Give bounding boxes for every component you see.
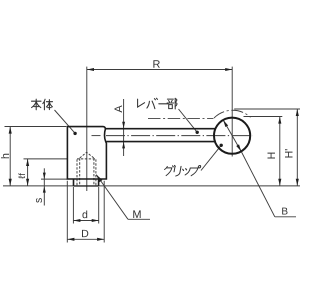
svg-text:B: B	[281, 206, 288, 217]
svg-text:s: s	[33, 198, 45, 203]
svg-text:h: h	[0, 153, 12, 159]
svg-text:ℓf: ℓf	[17, 173, 28, 179]
svg-text:H: H	[266, 152, 278, 160]
svg-text:A: A	[113, 105, 125, 113]
svg-text:M: M	[132, 209, 141, 221]
svg-text:R: R	[152, 59, 160, 71]
svg-text:d: d	[82, 209, 88, 221]
svg-text:D: D	[81, 228, 89, 240]
svg-text:H': H'	[284, 149, 296, 159]
